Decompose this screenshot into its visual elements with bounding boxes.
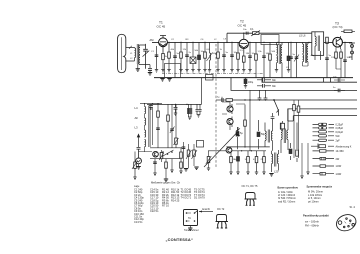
svg-text:OC 45: OC 45	[238, 24, 247, 28]
ground (left cluster b)	[170, 159, 173, 173]
resistor R2	[167, 42, 170, 72]
svg-text:AF: AF	[135, 116, 139, 120]
ground (T1 stage b)	[167, 79, 171, 82]
capacitor C3	[173, 42, 177, 77]
parts list column 2	[162, 188, 169, 208]
switch contacts	[162, 150, 174, 157]
coils L5 L6	[299, 34, 308, 67]
capacitor C41	[264, 90, 268, 100]
resistor R17	[245, 151, 250, 175]
resistor R6	[216, 42, 219, 72]
svg-text:5n: 5n	[177, 53, 180, 55]
legend row 5	[313, 139, 341, 142]
svg-text:„CONTESSA“: „CONTESSA“	[166, 237, 194, 242]
trimmer C22	[170, 105, 175, 148]
transistor package P2	[216, 215, 229, 229]
svg-text:T4 OC71: T4 OC71	[181, 196, 192, 200]
DIN socket	[184, 210, 198, 226]
IF can 1 outline	[165, 64, 181, 78]
svg-text:L1: L1	[130, 53, 133, 55]
wire: mid rail	[226, 146, 269, 148]
legend row 7	[313, 150, 345, 153]
ferrite antenna	[118, 34, 126, 72]
svg-text:50k: 50k	[195, 50, 199, 52]
capacitor C37 on line A	[333, 77, 345, 82]
box (switch block)	[197, 141, 204, 148]
svg-text:FM – 60kHz: FM – 60kHz	[305, 224, 319, 228]
capacitor C4	[185, 42, 189, 72]
svg-text:3r 540 / 570mm: 3r 540 / 570mm	[278, 196, 296, 200]
legend row 4	[313, 135, 341, 138]
capacitor C23	[174, 105, 179, 148]
transistor T8	[153, 151, 159, 157]
svg-text:C6: C6	[201, 39, 205, 41]
pot R29	[159, 150, 164, 162]
capacitor C31	[174, 104, 178, 116]
capacitor C9	[248, 42, 252, 72]
resistor R14	[244, 105, 247, 147]
svg-text:Pasniškovky podatki: Pasniškovky podatki	[303, 214, 329, 218]
legend row 10	[313, 172, 342, 176]
electrolytic C36 below bus	[244, 78, 254, 89]
svg-text:1k: 1k	[165, 56, 168, 58]
ground (antenna coil)	[136, 64, 140, 71]
svg-text:10n: 10n	[243, 29, 247, 31]
resistor R28	[164, 159, 168, 182]
wire: fan line C	[233, 99, 358, 101]
transistor T4	[227, 104, 233, 114]
svg-text:R3: R3	[186, 39, 190, 41]
wire: fan line D	[288, 109, 357, 121]
switch S1 (diagonal)	[273, 99, 279, 116]
svg-text:2W: 2W	[336, 158, 340, 161]
svg-text:1k: 1k	[220, 49, 223, 51]
notes right rows	[308, 190, 323, 204]
svg-text:Tonabnehmer: Tonabnehmer	[184, 229, 199, 232]
resistor R18	[253, 151, 258, 175]
ground (jack)	[136, 164, 140, 169]
electrolytic C18	[236, 127, 243, 149]
svg-text:50µ: 50µ	[261, 133, 266, 136]
svg-text:L2: L2	[130, 58, 133, 60]
capacitor C15 pair row1	[257, 78, 277, 82]
AF input row: capacitor C17	[216, 97, 223, 102]
electrolytic C19	[257, 120, 266, 149]
svg-text:30n: 30n	[272, 79, 277, 82]
resistor R15	[229, 151, 236, 175]
resistor R9 (T2 emitter)	[242, 53, 245, 72]
svg-text:5nF: 5nF	[336, 135, 341, 138]
TO-3 case outline	[334, 212, 358, 234]
vertical dashed alignment line	[215, 44, 217, 167]
svg-text:Spremembe mogoče: Spremembe mogoče	[307, 185, 333, 189]
capacitor C16 pair row2	[257, 84, 277, 88]
junction dots lineC	[244, 99, 266, 100]
capacitor C10 (osc padder)	[262, 45, 266, 78]
wire: fan line A	[262, 78, 357, 83]
capacitor C14	[343, 42, 347, 77]
resistor R5	[203, 42, 206, 72]
ground (socket)	[188, 226, 192, 231]
junction dots coil top	[144, 103, 159, 104]
ground (T1 stage a)	[160, 79, 164, 82]
svg-text:Ansicht: Ansicht	[202, 208, 210, 211]
coil L3	[135, 118, 146, 147]
resistor R13 (horizontal)	[224, 99, 233, 102]
parts list column 4	[181, 188, 192, 200]
svg-text:R7 10: R7 10	[162, 204, 169, 208]
notes sub rows	[305, 220, 319, 228]
svg-text:OC 71, OC 75: OC 71, OC 75	[242, 185, 258, 188]
transformer Tr3 (output)	[281, 109, 288, 154]
transistor T7	[226, 147, 232, 153]
svg-text:zad R2 / 10mm: zad R2 / 10mm	[278, 200, 295, 204]
electrolytic pair C32 C33	[186, 104, 192, 120]
svg-text:40k: 40k	[171, 49, 175, 51]
capacitor C12	[294, 42, 299, 77]
svg-text:L5 L6: L5 L6	[299, 34, 306, 38]
svg-text:AM: AM	[150, 38, 154, 42]
tuning arrow 2	[137, 134, 139, 147]
wire: AGC line	[227, 32, 317, 34]
svg-text:L2: L2	[214, 39, 217, 41]
transformer Tr4 (bottom)	[272, 150, 279, 174]
svg-text:12k: 12k	[183, 49, 187, 51]
resistor R1 (T1 emitter)	[161, 52, 164, 72]
wire: coil top link	[140, 103, 162, 105]
electrolytic C39	[287, 42, 290, 72]
svg-text:1/4W: 1/4W	[336, 173, 342, 176]
wire: cluster rails	[150, 148, 182, 159]
svg-text:C1: C1	[151, 51, 155, 53]
svg-text:C13 5n: C13 5n	[134, 220, 143, 224]
jack circle	[136, 158, 142, 164]
resistor R11	[269, 42, 272, 77]
electrolytic R16	[235, 151, 240, 175]
socket arrow	[199, 208, 213, 213]
svg-text:R14 25: R14 25	[171, 198, 180, 202]
electrolytic C20	[289, 143, 292, 160]
ground (audio)	[269, 174, 273, 177]
legend row 2	[313, 127, 344, 130]
svg-text:0,01µF: 0,01µF	[336, 131, 344, 134]
resistor R19	[261, 151, 266, 175]
parts list column 1a	[134, 188, 144, 224]
svg-text:L3: L3	[135, 126, 139, 130]
electrolytic C5	[197, 42, 200, 72]
resistor R33 (T3 emitter)	[331, 47, 341, 69]
capacitor C25	[153, 159, 157, 176]
capacitor C7	[222, 42, 226, 72]
resistor R22	[156, 104, 160, 148]
capacitor C21	[137, 147, 141, 157]
battery B1	[280, 121, 284, 131]
wire: T2 base drop	[226, 33, 228, 42]
diagonal wire to AF	[204, 132, 238, 168]
transistor T3	[333, 22, 343, 50]
svg-text:Abstimmung K: Abstimmung K	[336, 145, 352, 148]
legend row 8	[313, 157, 340, 161]
svg-text:5µ: 5µ	[217, 97, 220, 99]
parts list column 3	[171, 188, 180, 203]
capacitor C1b with ground	[148, 65, 152, 76]
tone pot R24	[186, 144, 192, 168]
parts list column 5	[194, 188, 205, 200]
pot R30	[206, 151, 212, 171]
capacitor C24	[182, 142, 186, 168]
svg-text:Meßwerte gegen Ger. Ch: Meßwerte gegen Ger. Ch	[151, 181, 181, 185]
capacitor C42	[271, 113, 275, 126]
transistor package P3	[245, 193, 257, 206]
junction dots main line	[168, 42, 345, 43]
wire: jack to T8	[135, 152, 152, 161]
legend row 1	[313, 123, 344, 126]
capacitor C30 on decoupling line	[149, 104, 153, 110]
ground (tone a)	[184, 169, 188, 172]
wire: decoupling line	[147, 78, 202, 105]
value labels T1 stage	[151, 49, 229, 58]
capacitor C40	[258, 90, 262, 100]
svg-text:Barve upornikov: Barve upornikov	[278, 186, 299, 190]
svg-text:5µ: 5µ	[240, 132, 243, 135]
transistor T1	[157, 21, 168, 53]
svg-text:C22 5n: C22 5n	[150, 209, 159, 213]
svg-text:TA: TA	[188, 217, 191, 220]
svg-text:5n: 5n	[226, 52, 229, 54]
capacitor C2	[155, 46, 159, 72]
svg-text:0,1: 0,1	[250, 27, 254, 31]
svg-text:pri 10mm: pri 10mm	[308, 199, 319, 203]
capacitor C13	[325, 37, 329, 77]
parts list column 1b	[150, 188, 159, 214]
transistor T6	[236, 127, 240, 136]
transistor T2	[224, 20, 249, 54]
wire: audio right verticals	[294, 100, 308, 176]
oscillator can box	[261, 35, 279, 45]
earphone jack	[349, 42, 355, 60]
capacitor pair C34 C35	[196, 104, 202, 117]
svg-text:D1 OA79: D1 OA79	[194, 196, 205, 200]
svg-text:L20: L20	[274, 170, 279, 174]
wire: AF couplings	[222, 97, 245, 130]
tone pot R25	[192, 144, 198, 166]
wire: main signal line	[152, 41, 352, 43]
capacitor C11	[289, 42, 293, 77]
svg-text:2n: 2n	[189, 52, 192, 54]
svg-text:5n: 5n	[293, 54, 296, 56]
resistor R7 (AGC, arrow)	[250, 27, 260, 36]
wire: dash-dot section line	[162, 73, 263, 75]
svg-text:30n: 30n	[272, 85, 277, 88]
coil L7	[207, 42, 213, 72]
resistor R34	[340, 49, 343, 78]
capacitor C38 on line B	[333, 87, 345, 92]
ground (audio right)	[300, 172, 309, 179]
svg-text:L4: L4	[135, 106, 139, 110]
svg-text:10–560: 10–560	[336, 150, 345, 153]
legend row 3	[313, 131, 344, 134]
svg-text:OC 72: OC 72	[217, 208, 225, 211]
svg-text:130: 130	[246, 53, 250, 55]
svg-text:(OC 74): (OC 74)	[333, 25, 343, 29]
resistor R10	[255, 42, 258, 77]
wire: mid rail 2	[208, 150, 266, 152]
resistor R12 (above T3)	[341, 30, 355, 33]
wire: fan line E	[288, 116, 357, 121]
svg-text:100µ: 100µ	[248, 82, 254, 84]
svg-text:C2: C2	[171, 39, 175, 41]
coil L4	[135, 106, 146, 114]
capacitor C1 (tuning trimmer)	[143, 44, 150, 69]
resistor R20	[296, 123, 299, 163]
svg-text:OC 45: OC 45	[157, 25, 166, 29]
transformer Tr1 (antenna coil)	[126, 44, 150, 65]
transistor T5	[227, 117, 233, 128]
svg-text:0,05µF: 0,05µF	[336, 127, 344, 130]
svg-text:1/2W: 1/2W	[336, 165, 342, 168]
wire: ground bus 2	[154, 77, 353, 79]
svg-text:5n: 5n	[333, 87, 336, 89]
cap on AGC line	[243, 29, 248, 35]
resistor R32	[297, 106, 300, 112]
resistor R27	[179, 148, 182, 174]
svg-text:zw – 100mh: zw – 100mh	[305, 220, 319, 224]
svg-text:1,5k: 1,5k	[258, 51, 263, 53]
resistor R23	[167, 105, 170, 148]
junction dots mid rail	[241, 146, 252, 151]
resistor R31	[293, 105, 296, 111]
legend row 9	[313, 165, 342, 168]
oscillator coil L3/L4	[275, 42, 282, 77]
coil core lines	[149, 106, 150, 148]
wire: coil column links	[145, 104, 153, 152]
wire: bus taps	[324, 78, 331, 83]
svg-text:500: 500	[272, 51, 276, 53]
svg-text:2pF: 2pF	[336, 139, 341, 142]
IF can 2 (with coil)	[312, 32, 324, 60]
wire: AF vertical b	[249, 90, 251, 150]
resistor R8	[236, 42, 239, 72]
thermistor box	[206, 75, 214, 81]
legend row 6	[311, 144, 352, 149]
notes left rows	[278, 190, 296, 204]
capacitor C8	[230, 42, 234, 72]
filter X-box	[190, 42, 196, 72]
svg-text:3,3: 3,3	[240, 50, 244, 52]
transformer Tr2 (driver)	[265, 123, 273, 151]
above-line labels	[171, 39, 217, 41]
wire: fan line B	[231, 78, 357, 91]
volume pot R21	[132, 160, 138, 180]
value labels T2 stage	[234, 50, 351, 69]
svg-text:L8: L8	[224, 39, 227, 41]
resistor R3	[179, 42, 182, 72]
ground (tone b)	[194, 167, 198, 170]
svg-text:Sl. 4: Sl. 4	[350, 205, 356, 209]
